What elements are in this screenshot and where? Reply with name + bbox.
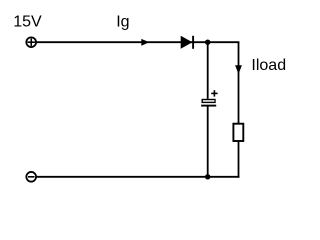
svg-text:Iload: Iload <box>251 57 286 74</box>
svg-text:Ig: Ig <box>116 13 129 30</box>
svg-text:15V: 15V <box>13 13 42 30</box>
